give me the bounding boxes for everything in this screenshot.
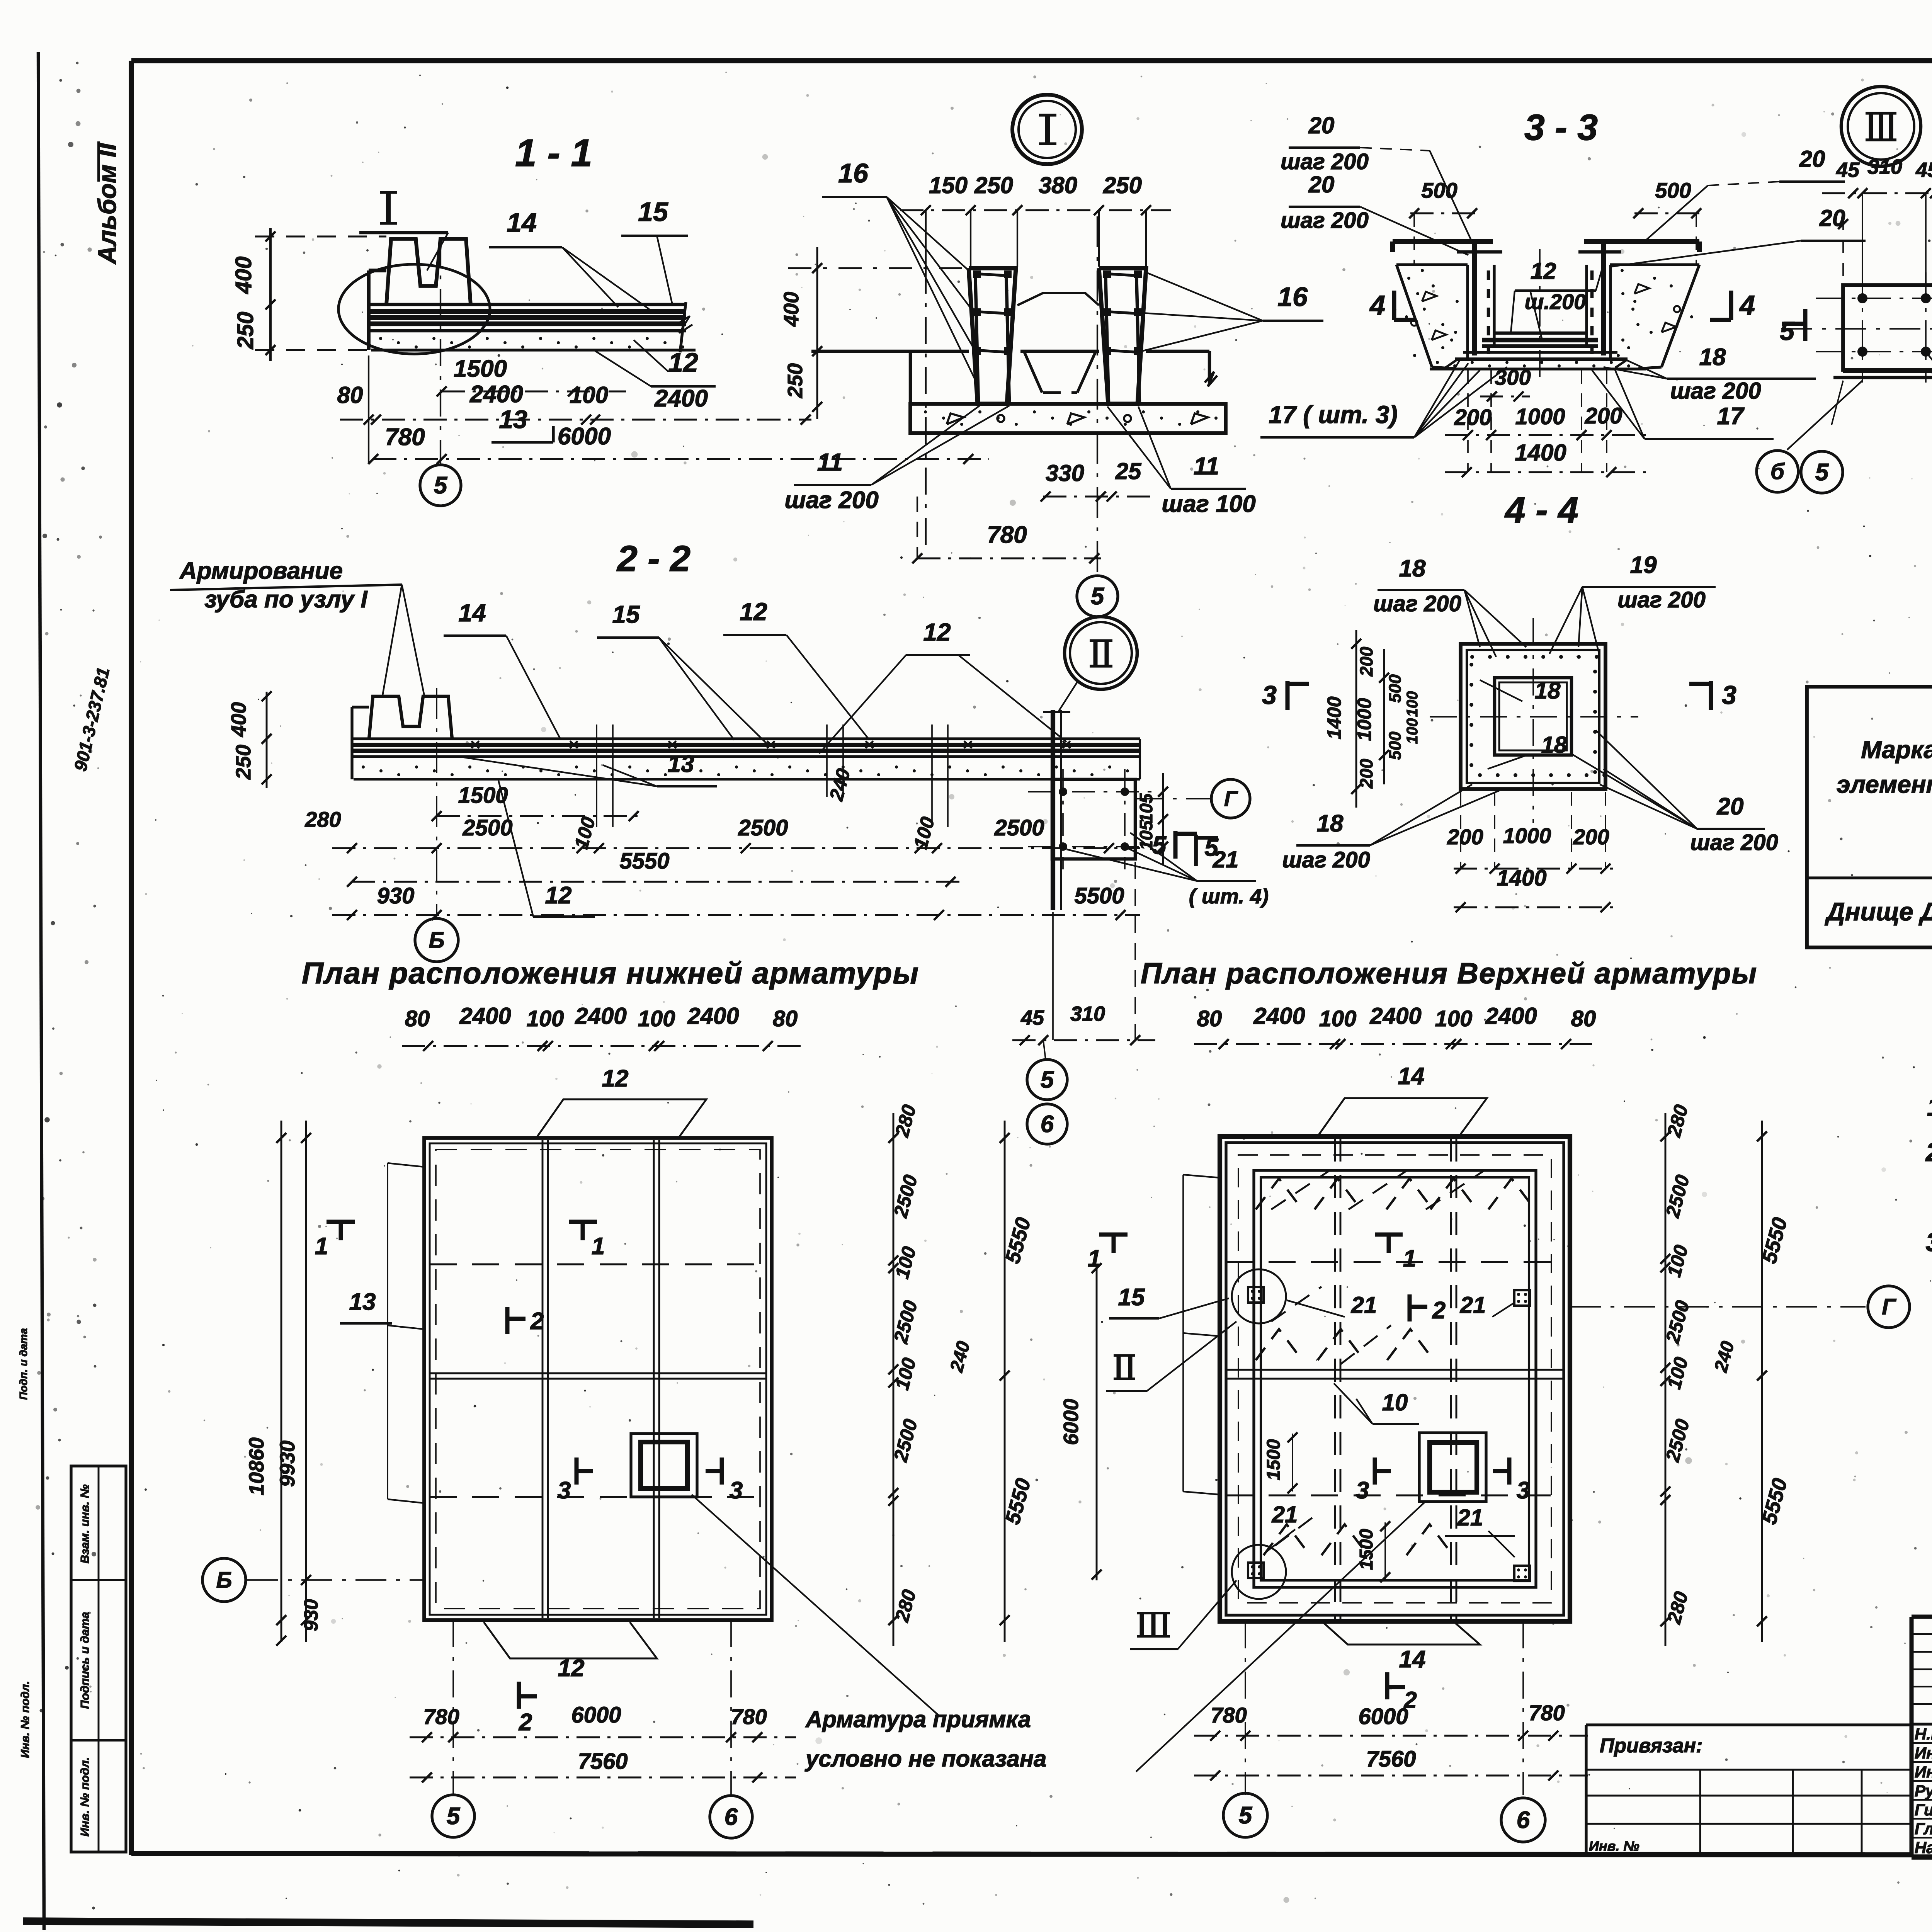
svg-text:18: 18 — [1699, 344, 1726, 371]
svg-text:шаг 200: шаг 200 — [1281, 149, 1369, 174]
svg-text:80: 80 — [405, 1006, 430, 1031]
svg-text:250: 250 — [233, 312, 258, 350]
svg-text:14: 14 — [1398, 1063, 1425, 1090]
svg-text:14: 14 — [1399, 1646, 1426, 1673]
svg-text:Гип: Гип — [1915, 1801, 1932, 1819]
svg-text:6000: 6000 — [1358, 1704, 1408, 1729]
svg-text:250: 250 — [974, 172, 1013, 198]
svg-text:500: 500 — [1386, 674, 1405, 703]
svg-text:80: 80 — [337, 382, 363, 408]
svg-text:5: 5 — [1041, 1066, 1054, 1093]
svg-text:21: 21 — [1460, 1292, 1486, 1318]
svg-text:280: 280 — [304, 807, 341, 832]
svg-text:5500: 5500 — [1074, 883, 1124, 908]
svg-text:4: 4 — [1369, 290, 1385, 321]
svg-text:3: 3 — [558, 1477, 571, 1504]
svg-text:2400: 2400 — [575, 1003, 626, 1029]
svg-text:2400: 2400 — [1369, 1003, 1421, 1029]
svg-text:Армирование: Армирование — [179, 558, 343, 584]
svg-text:100: 100 — [1319, 1006, 1357, 1031]
svg-text:1000: 1000 — [1354, 698, 1375, 741]
svg-text:200: 200 — [1447, 825, 1483, 849]
svg-text:1.: 1. — [1927, 1092, 1932, 1122]
svg-text:4 - 4: 4 - 4 — [1504, 490, 1578, 531]
svg-text:5: 5 — [434, 472, 448, 499]
svg-text:Г: Г — [1882, 1294, 1896, 1320]
svg-text:7560: 7560 — [1366, 1747, 1416, 1772]
svg-text:15: 15 — [1118, 1284, 1145, 1311]
svg-text:2500: 2500 — [462, 815, 512, 840]
svg-text:ш.200: ш.200 — [1525, 289, 1586, 314]
svg-text:3: 3 — [730, 1477, 743, 1504]
svg-text:100: 100 — [1404, 718, 1421, 744]
svg-text:10: 10 — [1382, 1389, 1408, 1415]
svg-text:310: 310 — [1070, 1002, 1105, 1026]
svg-text:15: 15 — [638, 197, 668, 227]
svg-text:12: 12 — [1531, 258, 1556, 284]
svg-text:2500: 2500 — [738, 815, 788, 840]
svg-text:5: 5 — [447, 1803, 461, 1830]
svg-text:18: 18 — [1399, 555, 1426, 582]
svg-text:80: 80 — [1197, 1006, 1222, 1031]
svg-text:12: 12 — [602, 1065, 629, 1092]
svg-text:Инв. № подл.: Инв. № подл. — [78, 1757, 92, 1837]
svg-text:Инв. № подл.: Инв. № подл. — [19, 1681, 32, 1758]
svg-text:шаг 200: шаг 200 — [1670, 378, 1761, 404]
svg-text:Б: Б — [429, 928, 444, 953]
svg-text:16: 16 — [838, 158, 869, 188]
svg-text:500: 500 — [1386, 731, 1405, 760]
svg-text:12: 12 — [923, 618, 951, 646]
svg-text:12: 12 — [668, 347, 698, 378]
svg-text:21: 21 — [1213, 847, 1239, 872]
svg-text:1400: 1400 — [1515, 440, 1566, 466]
svg-text:400: 400 — [780, 292, 803, 327]
svg-text:200: 200 — [1585, 403, 1622, 429]
svg-text:13: 13 — [668, 751, 694, 777]
svg-text:1500: 1500 — [454, 355, 507, 382]
svg-text:1: 1 — [1088, 1245, 1101, 1272]
svg-text:шаг 200: шаг 200 — [1373, 591, 1461, 616]
svg-text:Н.Контр: Н.Контр — [1915, 1725, 1932, 1743]
svg-text:25: 25 — [1115, 458, 1142, 484]
svg-text:1500: 1500 — [1356, 1529, 1377, 1570]
svg-text:930: 930 — [377, 883, 415, 908]
svg-text:шаг 200: шаг 200 — [1690, 830, 1778, 855]
svg-text:1 - 1: 1 - 1 — [515, 131, 592, 175]
svg-text:100: 100 — [527, 1006, 564, 1031]
svg-text:шаг 200: шаг 200 — [784, 487, 878, 514]
svg-text:6000: 6000 — [1060, 1399, 1083, 1445]
svg-text:930: 930 — [300, 1599, 322, 1631]
svg-text:3.: 3. — [1926, 1228, 1932, 1257]
svg-text:6000: 6000 — [571, 1702, 621, 1728]
svg-text:1500: 1500 — [1264, 1439, 1284, 1480]
svg-text:элемента: элемента — [1837, 770, 1932, 798]
svg-text:2: 2 — [1432, 1297, 1446, 1324]
svg-text:Днище Дм2: Днище Дм2 — [1825, 897, 1932, 926]
svg-text:200: 200 — [1356, 759, 1376, 789]
svg-text:б: б — [1770, 459, 1785, 484]
svg-text:условно не показана: условно не показана — [804, 1746, 1046, 1772]
svg-text:80: 80 — [1571, 1006, 1596, 1031]
svg-text:17 ( шт. 3): 17 ( шт. 3) — [1269, 401, 1398, 429]
svg-text:1: 1 — [315, 1233, 328, 1260]
svg-text:200: 200 — [1454, 405, 1492, 430]
svg-text:100: 100 — [570, 382, 608, 408]
svg-text:780: 780 — [731, 1704, 767, 1729]
svg-text:Б: Б — [216, 1568, 232, 1593]
svg-text:45: 45 — [1020, 1006, 1044, 1029]
svg-text:5: 5 — [1815, 459, 1829, 486]
svg-text:5: 5 — [1780, 316, 1795, 346]
svg-text:11: 11 — [1194, 452, 1219, 480]
svg-text:400: 400 — [227, 702, 250, 737]
svg-text:80: 80 — [773, 1006, 798, 1031]
svg-text:3 - 3: 3 - 3 — [1524, 107, 1598, 148]
svg-text:18: 18 — [1541, 732, 1567, 758]
svg-text:1000: 1000 — [1503, 823, 1551, 848]
svg-text:21: 21 — [1457, 1505, 1483, 1531]
svg-text:380: 380 — [1039, 172, 1077, 198]
svg-text:1: 1 — [1403, 1245, 1416, 1272]
svg-text:Нач.отд: Нач.отд — [1915, 1838, 1932, 1857]
svg-text:5: 5 — [1091, 583, 1105, 610]
svg-text:Взам. инв. №: Взам. инв. № — [78, 1485, 92, 1564]
svg-text:4: 4 — [1739, 290, 1755, 321]
svg-text:1400: 1400 — [1497, 866, 1546, 891]
svg-text:300: 300 — [1495, 365, 1531, 389]
svg-text:15: 15 — [612, 600, 640, 628]
svg-text:14: 14 — [507, 207, 537, 238]
svg-text:6000: 6000 — [558, 423, 611, 450]
svg-text:250: 250 — [784, 363, 807, 398]
svg-text:Подпись и дата: Подпись и дата — [78, 1612, 92, 1709]
svg-text:Альбом II: Альбом II — [93, 143, 121, 265]
svg-text:20: 20 — [1717, 793, 1744, 820]
svg-text:3: 3 — [1722, 680, 1736, 710]
svg-text:13: 13 — [499, 405, 527, 434]
svg-text:Инж.: Инж. — [1915, 1763, 1932, 1781]
svg-text:шаг 200: шаг 200 — [1282, 847, 1370, 872]
svg-text:Г: Г — [1224, 786, 1238, 811]
svg-text:2400: 2400 — [687, 1003, 739, 1029]
svg-text:20: 20 — [1308, 172, 1335, 197]
svg-text:Подп. и дата: Подп. и дата — [17, 1328, 29, 1400]
svg-text:3: 3 — [1356, 1477, 1369, 1504]
svg-text:Рук.гр.: Рук.гр. — [1915, 1782, 1932, 1800]
svg-text:2400: 2400 — [469, 381, 523, 408]
svg-text:зуба по узлу I: зуба по узлу I — [204, 586, 368, 613]
svg-text:100: 100 — [1404, 691, 1421, 717]
svg-text:2400: 2400 — [1253, 1003, 1305, 1029]
svg-text:16: 16 — [1277, 282, 1308, 312]
svg-text:100: 100 — [638, 1006, 675, 1031]
svg-text:21: 21 — [1351, 1292, 1377, 1318]
svg-text:14: 14 — [458, 599, 486, 627]
svg-text:1400: 1400 — [1323, 696, 1345, 739]
svg-text:5: 5 — [1239, 1802, 1253, 1829]
svg-text:Арматура приямка: Арматура приямка — [805, 1706, 1031, 1732]
svg-text:План расположения Верхней а: План расположения Верхней арматуры — [1141, 957, 1757, 990]
svg-text:17: 17 — [1717, 403, 1745, 430]
svg-text:2400: 2400 — [459, 1003, 511, 1029]
svg-text:21: 21 — [1272, 1502, 1298, 1527]
svg-text:2 - 2: 2 - 2 — [616, 538, 690, 579]
svg-text:45: 45 — [1836, 158, 1860, 182]
svg-text:3: 3 — [1262, 680, 1277, 710]
svg-text:Гл.спец: Гл.спец — [1915, 1820, 1932, 1838]
svg-text:105: 105 — [1136, 793, 1156, 823]
svg-text:( шт. 4): ( шт. 4) — [1189, 885, 1269, 908]
svg-text:7560: 7560 — [578, 1749, 628, 1774]
svg-text:План расположения нижней: План расположения нижней арматуры — [302, 956, 919, 990]
svg-text:400: 400 — [231, 257, 256, 294]
svg-text:19: 19 — [1630, 552, 1657, 578]
svg-text:780: 780 — [1529, 1701, 1565, 1725]
svg-text:20: 20 — [1799, 146, 1825, 172]
svg-text:9930: 9930 — [276, 1440, 299, 1487]
svg-text:Марка: Марка — [1861, 736, 1932, 764]
svg-text:2400: 2400 — [1485, 1003, 1537, 1029]
svg-text:45: 45 — [1915, 158, 1932, 182]
svg-text:1: 1 — [592, 1233, 605, 1260]
svg-text:20: 20 — [1308, 112, 1335, 138]
svg-text:310: 310 — [1867, 155, 1902, 179]
svg-text:Инв. №: Инв. № — [1589, 1838, 1639, 1854]
svg-text:2: 2 — [530, 1308, 544, 1335]
svg-text:780: 780 — [1211, 1703, 1247, 1727]
svg-text:10860: 10860 — [245, 1437, 268, 1495]
svg-text:2: 2 — [519, 1709, 532, 1736]
svg-text:5550: 5550 — [619, 849, 669, 874]
svg-text:1000: 1000 — [1515, 404, 1565, 429]
svg-text:Инж.: Инж. — [1915, 1744, 1932, 1762]
svg-text:шаг 200: шаг 200 — [1281, 208, 1369, 233]
svg-text:250: 250 — [1103, 172, 1142, 198]
svg-text:250: 250 — [232, 745, 255, 780]
svg-text:500: 500 — [1655, 178, 1691, 202]
svg-text:2.: 2. — [1925, 1138, 1932, 1167]
svg-text:2500: 2500 — [994, 815, 1044, 840]
svg-text:18: 18 — [1317, 810, 1344, 837]
svg-text:6: 6 — [1517, 1807, 1530, 1833]
svg-text:150: 150 — [929, 172, 968, 198]
svg-text:12: 12 — [740, 598, 767, 626]
svg-text:2400: 2400 — [654, 385, 708, 412]
svg-text:13: 13 — [349, 1289, 376, 1315]
svg-text:105: 105 — [1136, 820, 1156, 850]
svg-text:780: 780 — [987, 522, 1027, 548]
svg-text:6: 6 — [724, 1804, 738, 1830]
svg-text:11: 11 — [817, 448, 843, 476]
svg-text:3: 3 — [1517, 1477, 1530, 1504]
svg-text:шаг 200: шаг 200 — [1617, 587, 1706, 612]
svg-text:100: 100 — [1435, 1006, 1473, 1031]
svg-text:200: 200 — [1356, 646, 1376, 677]
svg-text:6: 6 — [1041, 1111, 1054, 1138]
svg-text:500: 500 — [1421, 178, 1457, 202]
svg-text:18: 18 — [1535, 678, 1561, 704]
svg-text:12: 12 — [545, 882, 572, 909]
svg-text:780: 780 — [385, 424, 425, 451]
svg-text:200: 200 — [1573, 825, 1609, 849]
svg-text:Привязан:: Привязан: — [1600, 1735, 1702, 1757]
svg-text:330: 330 — [1046, 460, 1084, 486]
svg-text:шаг 100: шаг 100 — [1162, 491, 1255, 517]
